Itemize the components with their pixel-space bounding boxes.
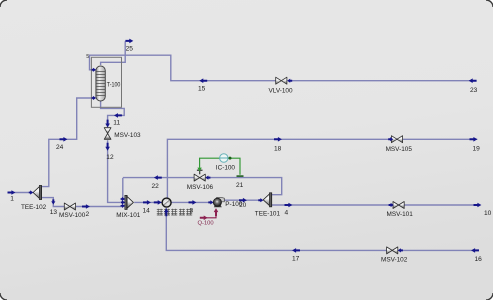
stream label 18 and arrow (274, 137, 282, 153)
wire stream 14: MIX-101 to heater (134, 201, 162, 203)
svg-text:10: 10 (484, 210, 492, 217)
svg-text:20: 20 (239, 202, 246, 209)
valve MSV-106 with actuator (194, 170, 205, 182)
stream label 3 and arrows (189, 200, 197, 214)
svg-text:12: 12 (106, 154, 114, 161)
wire column overhead to stream 25 (101, 41, 126, 65)
svg-text:IC-100: IC-100 (216, 164, 236, 171)
wire stream 20: P-100 to TEE-101 (223, 199, 258, 201)
svg-text:1: 1 (10, 196, 14, 203)
svg-text:Q-100: Q-100 (198, 221, 214, 227)
stream label 13 and arrow (50, 199, 58, 216)
svg-text:T-100: T-100 (107, 82, 121, 89)
svg-text:13: 13 (50, 209, 58, 216)
wire stream 24: TEE-102 top up, right, up to column bottom inlet (41, 98, 92, 187)
stream label 17 and arrow (292, 248, 300, 262)
svg-text:4: 4 (285, 210, 289, 217)
stream label 24 and arrow (56, 137, 67, 151)
arrow into MSV-102 (398, 248, 403, 252)
svg-text:MSV-106: MSV-106 (187, 184, 214, 191)
arrow into heater from below (stream 17) (164, 208, 169, 216)
svg-text:17: 17 (292, 256, 300, 263)
svg-text:MSV-100: MSV-100 (59, 212, 86, 219)
stream label 1 and arrow (8, 190, 34, 202)
wire column bottoms to stream 11 (101, 101, 125, 127)
wire stream 16/17: edge to heater bottom (166, 208, 478, 250)
svg-text:18: 18 (274, 146, 282, 153)
pump P-100 (213, 197, 224, 207)
svg-text:15: 15 (198, 86, 206, 93)
arrow into MSV-106 (205, 176, 210, 180)
stream label 19 and end arrow (470, 137, 481, 153)
wire stream 1 into TEE-102 (10, 192, 32, 194)
T-100 column outer box (91, 57, 121, 107)
arrow into TEE-101 (258, 198, 263, 202)
wire stream 3: heater to P-100 (171, 201, 213, 203)
wire stream 12: MSV-103 down to MIX-101 (108, 140, 120, 202)
svg-text:MSV-103: MSV-103 (114, 132, 141, 139)
svg-text:16: 16 (475, 256, 483, 263)
label MSV-106 (187, 184, 214, 191)
energy stream Q-100 (198, 208, 219, 226)
svg-text:24: 24 (56, 144, 64, 151)
arrow into pump (208, 200, 213, 204)
tee TEE-101 (255, 193, 281, 218)
wire stream 21/22 recycle: TEE-101 top to MSV-106 to MIX vertical (123, 178, 282, 195)
arrow into MSV-101 (389, 203, 394, 207)
svg-text:19: 19 (473, 146, 481, 153)
wire stream 18: heater top to edge (167, 139, 477, 198)
svg-text:11: 11 (113, 120, 120, 127)
stream label 25 and arrow (125, 39, 133, 53)
label IC-100 (216, 164, 236, 171)
controller signal lines IC-100 (200, 158, 240, 175)
svg-text:MSV-105: MSV-105 (386, 146, 413, 153)
wire stream 13: TEE-102 bottom to MSV-100 (41, 198, 65, 207)
node: column top inlet arrow (92, 68, 97, 72)
arrow into VLV-100 from right (287, 79, 292, 83)
arrow into heater (154, 200, 162, 205)
stream label 10 and end arrow (474, 203, 492, 217)
stream label 14 and arrow (143, 200, 151, 214)
svg-text:5: 5 (86, 54, 89, 60)
controller IC-100 circle (220, 154, 232, 162)
node: column bottom inlet arrow (92, 96, 97, 100)
svg-text:2: 2 (86, 211, 90, 218)
controller tap tick at node 21 (237, 175, 244, 177)
stream label 5 at column top feed corner (86, 54, 89, 60)
svg-text:VLV-100: VLV-100 (269, 88, 293, 95)
stream label 22 and arrow (152, 175, 162, 190)
heater E-100 circle (162, 198, 171, 207)
valve MSV-105 (386, 136, 413, 153)
stream label 16 and end arrow (471, 248, 482, 263)
stream label 23 and end arrow (469, 78, 478, 94)
mixer inlet arrows (121, 197, 126, 208)
heater chinese name label (drawn glyph strokes) (157, 209, 192, 215)
svg-text:22: 22 (152, 183, 160, 190)
T-100 tower vessel (96, 66, 105, 101)
pump label P-100 and stream label 20 (225, 201, 246, 209)
svg-text:25: 25 (126, 46, 134, 53)
valve VLV-100 (269, 77, 293, 94)
stream label 21 (236, 182, 244, 189)
tee TEE-102 (21, 186, 47, 211)
wire stream 4: TEE-101 to edge (272, 204, 478, 206)
valve MSV-103 (104, 128, 141, 140)
svg-text:14: 14 (143, 208, 151, 215)
wire stream 22 vertical into MIX-101 top (122, 178, 124, 199)
stream label 15 and arrow (198, 78, 207, 92)
stream label 12 and arrow (105, 143, 114, 161)
valve MSV-100 (59, 203, 86, 219)
svg-text:23: 23 (470, 87, 478, 94)
valve MSV-101 (387, 202, 414, 218)
wire stream 2: MSV-100 to MIX-101 (76, 206, 121, 208)
svg-text:3: 3 (190, 208, 194, 215)
wire stream 15/23 feed line into column top (90, 55, 477, 80)
svg-text:21: 21 (236, 182, 244, 189)
svg-text:TEE-102: TEE-102 (21, 204, 47, 211)
svg-text:MIX-101: MIX-101 (116, 212, 141, 219)
controller signal arrow onto valve (197, 168, 201, 172)
stream label 4 and arrow (285, 203, 293, 217)
stream label 11 and arrow (105, 113, 122, 127)
arrow on stream 20 (239, 198, 247, 203)
svg-text:TEE-101: TEE-101 (255, 210, 281, 217)
stream label 2 and arrow (82, 204, 90, 218)
T-100 label (107, 82, 121, 89)
svg-text:MSV-102: MSV-102 (381, 256, 408, 263)
arrow into MSV-105 (388, 137, 393, 141)
valve MSV-102 (381, 247, 408, 264)
svg-text:MSV-101: MSV-101 (387, 211, 414, 218)
mixer MIX-101 (116, 195, 141, 218)
